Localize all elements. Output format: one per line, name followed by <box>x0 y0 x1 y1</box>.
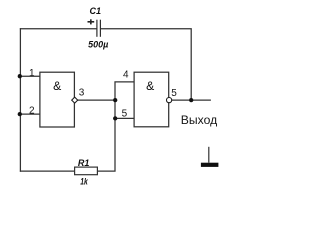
junction output / right rail <box>189 98 193 102</box>
svg-text:1k: 1k <box>80 177 88 187</box>
svg-text:Выход: Выход <box>181 113 218 127</box>
inversion bubble on gate 2 output <box>167 98 172 103</box>
svg-text:C1: C1 <box>90 6 102 16</box>
wire top rail left (to C1 + plate) <box>20 28 97 30</box>
junction pin 5 tee <box>113 116 117 120</box>
wire bottom rail right of R1 up mid vertical to pin 4 <box>97 82 133 171</box>
junction at pin 1 / left rail <box>18 74 22 78</box>
junction at pin 2 / left rail <box>18 112 22 116</box>
polarity + mark of C1 <box>88 19 95 24</box>
wire left rail <box>19 28 21 172</box>
wire top rail right of C1 and right rail down to output <box>100 29 191 100</box>
junction pin 3 to pin 4 tee <box>113 98 117 102</box>
inversion bubble on gate 1 output <box>72 97 78 103</box>
svg-text:4: 4 <box>123 70 129 81</box>
NAND gate U1.1 body <box>40 72 75 127</box>
wire output stub <box>172 99 211 101</box>
svg-text:2: 2 <box>29 106 35 117</box>
svg-text:3: 3 <box>79 88 85 99</box>
svg-text:&: & <box>53 79 61 93</box>
svg-text:&: & <box>146 79 154 93</box>
svg-text:R1: R1 <box>78 158 90 168</box>
svg-text:5: 5 <box>122 109 128 120</box>
svg-text:500µ: 500µ <box>88 39 108 49</box>
svg-text:5: 5 <box>171 88 177 99</box>
wire pin 2 stub <box>20 113 40 115</box>
wire pin 1 stub <box>20 75 40 77</box>
svg-text:1: 1 <box>29 68 35 79</box>
wire pin 5 input stub <box>115 117 134 119</box>
wire pin 3 output to mid junction <box>77 99 115 101</box>
NAND gate U1.2 body <box>134 72 169 127</box>
ground <box>201 147 219 167</box>
wire bottom rail left of R1 <box>20 170 75 172</box>
resistor R1 body <box>75 167 98 175</box>
capacitor C1 plates <box>97 20 101 37</box>
